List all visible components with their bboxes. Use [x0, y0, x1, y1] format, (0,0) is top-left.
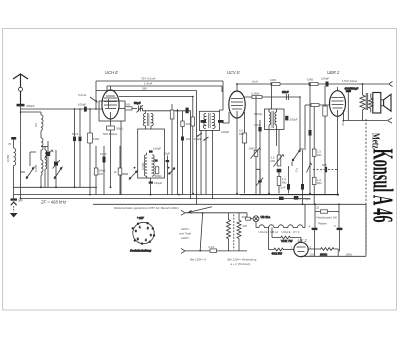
wire x247 — [247, 213, 253, 219]
ground — [13, 195, 15, 199]
capacitor C29 8nF on dashed link — [313, 163, 338, 172]
tube U1 UCH — [102, 70, 119, 119]
svg-text:* 157: * 157 — [137, 216, 144, 220]
wire mains upper — [185, 212, 247, 214]
coil L4 output — [369, 94, 373, 113]
resistor R10 1M — [249, 99, 261, 195]
svg-text:UB 21a: UB 21a — [261, 215, 271, 219]
resistor R17 dropper1 — [227, 213, 231, 251]
resistor R4 50k — [94, 146, 106, 195]
wire U2 cathode down — [236, 118, 238, 194]
svg-text:1MΩ: 1MΩ — [270, 78, 277, 82]
switch S2 — [54, 167, 63, 180]
trimmer C4 — [45, 141, 54, 187]
tube U3 UBR — [327, 70, 346, 116]
resistor R25 — [181, 111, 191, 195]
capacitor C27 electrolytic a — [314, 212, 316, 228]
svg-text:40Ω 5W: 40Ω 5W — [272, 251, 283, 255]
box osc — [138, 129, 165, 178]
capacitor C28 electrolytic b — [337, 228, 343, 230]
switch S3 — [121, 171, 138, 180]
capacitor C15a IFT1 left — [201, 120, 206, 123]
terminal mains upper — [181, 210, 185, 215]
wire mains lower right — [216, 250, 247, 252]
transformer T2 IF1 — [199, 111, 219, 130]
svg-text:25nF: 25nF — [282, 90, 289, 94]
wire top link y112 — [21, 111, 42, 113]
svg-text:28V: 28V — [142, 87, 147, 91]
resistor R16 speaker field — [360, 84, 365, 121]
switch S1 — [21, 167, 35, 180]
resistor R5 — [114, 146, 122, 195]
capacitor C2 100pF grid — [84, 107, 87, 112]
capacitor C19 5nF — [281, 166, 291, 194]
svg-text:250pF: 250pF — [254, 112, 262, 116]
svg-text:UCH E: UCH E — [282, 230, 291, 234]
resistor R3 20ohm — [119, 103, 132, 111]
svg-text:1,4mA: 1,4mA — [144, 82, 152, 86]
wire osc grid y110.8 — [141, 109, 186, 111]
wire column x177 — [177, 109, 179, 195]
svg-text:10nF: 10nF — [254, 123, 261, 127]
resistor R1 1M — [88, 109, 100, 195]
speaker body — [373, 93, 381, 114]
wire x205 — [196, 91, 198, 205]
resistor R14 1M — [323, 86, 327, 195]
svg-text:102: 102 — [186, 137, 191, 141]
capacitor C22 400/500pF — [345, 87, 359, 121]
coil L3b — [152, 155, 154, 176]
terminal Y2 — [388, 118, 393, 123]
label 0,1/50uF — [294, 196, 299, 200]
resistor R6 — [170, 104, 174, 195]
svg-text:ZF = 468 kHz: ZF = 468 kHz — [40, 200, 67, 205]
filament chain — [256, 222, 305, 228]
svg-text:1MΩ: 1MΩ — [307, 78, 314, 82]
wire AVC line y109 — [21, 108, 103, 110]
svg-text:302: 302 — [186, 122, 191, 126]
svg-text:±10pF: ±10pF — [153, 147, 161, 151]
capacitor C18 10nF — [254, 120, 262, 194]
resistor R21 — [309, 248, 338, 257]
svg-text:61μF: 61μF — [100, 152, 107, 156]
svg-text:UCH E: UCH E — [259, 230, 268, 234]
tube U4 UY2 — [291, 238, 312, 257]
bottom rails — [14, 186, 98, 188]
svg-text:1MΩ: 1MΩ — [249, 147, 256, 151]
svg-text:Netzdrossel 1W: Netzdrossel 1W — [317, 216, 338, 220]
trimmer C8 50pF — [132, 101, 143, 113]
transformer core — [366, 93, 368, 110]
svg-text:180V: 180V — [346, 253, 353, 257]
socket — [130, 216, 155, 252]
svg-text:Platten: Platten — [318, 222, 327, 226]
wire U2 plate up — [236, 84, 238, 87]
shield box U1 — [99, 101, 125, 121]
wire U1 cathode down — [110, 119, 112, 187]
capacitor C14 — [186, 108, 191, 199]
rail 28V — [96, 90, 197, 92]
svg-text:0,1MΩ: 0,1MΩ — [251, 92, 260, 96]
rail B+ right — [237, 83, 388, 85]
resistor R18 dropper2 — [237, 213, 241, 251]
svg-text:120V≈: 120V≈ — [181, 236, 190, 240]
svg-text:2W: 2W — [99, 172, 104, 176]
svg-text:500Ω: 500Ω — [155, 174, 163, 178]
resistor R24 1M on rail — [271, 83, 280, 86]
svg-text:Konsul A 46: Konsul A 46 — [366, 149, 397, 223]
svg-text:0,680: 0,680 — [34, 164, 38, 172]
svg-text:Sockelschaltung: Sockelschaltung — [130, 248, 151, 252]
svg-text:Bei 120V≈ A: Bei 120V≈ A — [190, 258, 206, 262]
wire IFT1 columns — [201, 130, 213, 198]
capacitor C6 — [73, 109, 76, 187]
svg-text:200pF: 200pF — [290, 118, 298, 122]
svg-text:Metz: Metz — [369, 133, 380, 149]
resistor R7 1M — [309, 83, 318, 86]
terminal mains lower — [181, 248, 185, 253]
antenna — [13, 74, 28, 106]
wire rail drop to IFT1 — [220, 81, 223, 111]
wire mixer grid y96.5 — [119, 96, 193, 98]
trimmer C5 — [53, 150, 61, 187]
capacitor C9 inside box — [149, 150, 153, 152]
capacitor C21 50pF — [309, 84, 312, 194]
top rail 1.4mA — [107, 85, 222, 87]
coil L3a — [144, 153, 146, 178]
svg-text:5nF: 5nF — [281, 186, 286, 190]
svg-text:a + b (Trennen): a + b (Trennen) — [231, 262, 251, 266]
wire x300 — [299, 97, 301, 150]
svg-text:Ca: Ca — [295, 168, 299, 172]
svg-text:100pF: 100pF — [221, 130, 229, 134]
wire link y146.5 — [41, 146, 48, 148]
capacitor C23 5nF ground — [11, 198, 18, 200]
potentiometer arrow on x310 — [307, 163, 312, 172]
resistor R13a 1.5M — [312, 107, 322, 205]
capacitor C15b IFT1 right — [218, 120, 224, 123]
wire screen drop — [95, 81, 97, 109]
capacitor C1 680pF — [17, 104, 25, 107]
capacitor C10a inside box — [155, 159, 158, 161]
speaker — [360, 84, 391, 121]
svg-text:UBR 2: UBR 2 — [327, 70, 340, 75]
svg-text:50nF: 50nF — [72, 132, 79, 136]
svg-text:5,2mA: 5,2mA — [78, 93, 86, 97]
svg-text:170V 44mA: 170V 44mA — [342, 79, 357, 83]
resistor R23 — [191, 97, 195, 194]
svg-text:8nF: 8nF — [322, 163, 327, 167]
svg-text:200Ω: 200Ω — [320, 252, 328, 256]
svg-text:70: 70 — [8, 142, 12, 146]
capacitor C10 below box — [149, 178, 163, 195]
potentiometer P1 — [271, 130, 285, 167]
svg-text:0,1/50μF: 0,1/50μF — [300, 197, 312, 201]
wire U3 cathode — [337, 116, 339, 195]
switch S5 — [292, 149, 304, 166]
capacitor C20 — [301, 150, 304, 204]
wire cathode bottom — [301, 255, 366, 257]
capacitor C32 — [279, 197, 284, 200]
wire stub x30 — [30, 152, 36, 166]
divider line — [365, 119, 367, 254]
transformer T1 osc coils — [143, 111, 153, 129]
wire UBR plate down — [343, 110, 345, 121]
capacitor C17 25nF — [282, 90, 289, 100]
svg-text:22: 22 — [316, 206, 320, 210]
svg-text:100pF: 100pF — [321, 77, 329, 81]
tube U2 UCV — [227, 70, 245, 118]
svg-text:5nF: 5nF — [18, 198, 23, 202]
svg-text:30kΩ: 30kΩ — [116, 127, 124, 131]
capacitor C16 100pF — [326, 82, 329, 87]
fuse F1 — [210, 249, 216, 253]
svg-text:20V: 20V — [310, 253, 315, 257]
wire heater top — [304, 204, 306, 227]
svg-text:±10μF: ±10μF — [154, 181, 162, 185]
wire speaker return — [344, 120, 388, 122]
wire mains lower left — [185, 250, 210, 252]
choke L5 — [315, 204, 339, 227]
wire screen line y97 — [243, 96, 300, 98]
mains cord arrow — [189, 207, 212, 213]
svg-text:25pF: 25pF — [164, 152, 171, 156]
svg-text:UCV E: UCV E — [227, 70, 240, 75]
wire rail end down — [365, 204, 367, 256]
terminal right top — [389, 82, 393, 87]
resistor Rosc inside box — [155, 167, 158, 174]
dashed gang link — [233, 215, 235, 251]
capacitor C3 70 — [11, 137, 16, 140]
svg-text:220V≈: 220V≈ — [180, 227, 190, 231]
capacitor C25 25pF — [164, 152, 171, 195]
svg-text:0,680: 0,680 — [6, 154, 10, 162]
svg-text:0,680: 0,680 — [141, 162, 145, 170]
resistor R2 30k — [107, 126, 115, 130]
svg-text:UCH E: UCH E — [105, 70, 118, 75]
svg-text:UB L2: UB L2 — [270, 230, 278, 234]
svg-text:0,5: 0,5 — [34, 123, 38, 127]
svg-text:0,1A: 0,1A — [209, 245, 215, 249]
top rail 75V — [96, 80, 223, 82]
wire column x121 — [120, 121, 122, 195]
wire rail right drops — [221, 86, 223, 92]
svg-text:UY 3: UY 3 — [293, 230, 300, 234]
svg-text:400/500pF: 400/500pF — [345, 87, 359, 91]
coil L1 — [14, 137, 16, 195]
trimmer C30 — [256, 169, 263, 194]
resistor R9 0.2M — [239, 112, 247, 194]
svg-text:und Trafo: und Trafo — [179, 232, 192, 236]
svg-text:2W: 2W — [243, 224, 248, 228]
transformer T3 IF2 — [265, 109, 285, 130]
lamp LP1 — [253, 215, 270, 222]
switch S4 — [169, 168, 176, 175]
capacitor C31 — [277, 169, 282, 173]
svg-text:500-860μA: 500-860μA — [103, 132, 117, 136]
svg-text:50pF: 50pF — [134, 101, 141, 105]
svg-text:100pF: 100pF — [78, 103, 86, 107]
resistor R8 0.1M — [252, 96, 262, 99]
resistor R19 VOR — [272, 228, 301, 243]
switch S6 arm — [199, 212, 203, 251]
coil L2 — [41, 112, 43, 187]
wire U3 grid left — [305, 105, 330, 150]
svg-text:680pF: 680pF — [27, 104, 35, 108]
wire IFT2 columns — [269, 130, 277, 194]
resistor R11 — [277, 172, 287, 193]
resistor R20 40ohm 5W — [269, 228, 294, 256]
resistor R12 — [311, 104, 319, 107]
svg-text:Wellenschalter gezeichnet 1557: Wellenschalter gezeichnet 1557 Hz, Berei… — [114, 206, 179, 210]
coil L2b — [45, 147, 47, 188]
svg-text:1MΩ: 1MΩ — [93, 137, 100, 141]
resistor R26 small — [246, 217, 251, 220]
capacitor C7 — [72, 109, 82, 187]
wire antenna column — [20, 106, 22, 198]
wire IFT1 to U2 grid — [220, 112, 229, 123]
svg-text:20Ω: 20Ω — [125, 103, 131, 107]
capacitor C11 — [100, 146, 107, 195]
svg-text:VOR 7W: VOR 7W — [281, 239, 293, 243]
svg-text:2mA: 2mA — [252, 80, 258, 84]
svg-text:75V 4,2mA: 75V 4,2mA — [141, 77, 155, 81]
